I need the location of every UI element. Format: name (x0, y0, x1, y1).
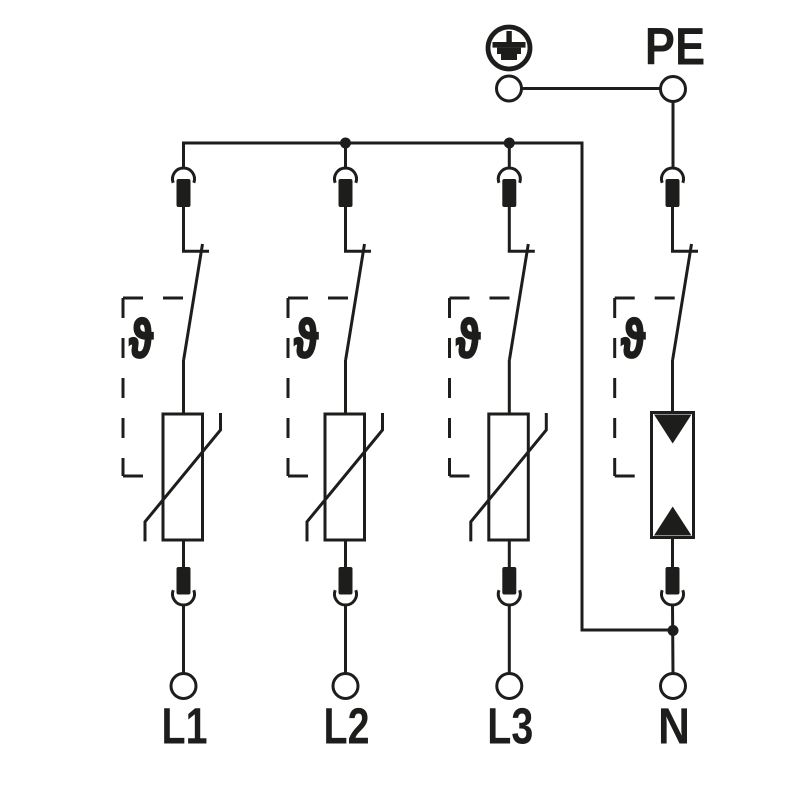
disconnect switch L2 (344, 244, 371, 360)
wire L1 varistor-fuse (182, 540, 185, 567)
wire L3 fuse-terminal (508, 605, 511, 674)
wire L3 varistor-fuse (508, 540, 511, 567)
thermal fuse top L2 (335, 168, 357, 207)
wire stub L2 (344, 143, 347, 168)
disconnect switch N (671, 244, 698, 360)
wire L1 fuse-terminal (182, 605, 185, 674)
terminal L2 (333, 674, 358, 699)
svg-text:ϑ: ϑ (294, 309, 318, 369)
svg-text:ϑ: ϑ (621, 309, 645, 369)
thermal box L1 (123, 298, 194, 476)
wire N gdt-fuse (671, 538, 674, 568)
svg-text:L2: L2 (324, 698, 370, 755)
svg-text:L1: L1 (162, 698, 208, 755)
wire earth-PE (522, 87, 661, 90)
wire L2 varistor-fuse (344, 540, 347, 567)
svg-text:L3: L3 (487, 698, 533, 755)
node bus-L3 (504, 138, 515, 149)
wire N fuse-switch (671, 207, 674, 251)
thermal fuse bottom L2 (335, 567, 357, 605)
gas discharge tube N (652, 413, 694, 538)
svg-text:PE: PE (645, 18, 706, 77)
svg-text:ϑ: ϑ (129, 309, 153, 369)
wire PE drop (672, 102, 675, 169)
wire bus (184, 143, 674, 630)
earth symbol (488, 27, 530, 69)
disconnect switch L1 (182, 244, 209, 360)
thermal box N (615, 298, 683, 476)
thermal fuse bottom N (662, 567, 684, 605)
wire L2 switch-varistor (344, 360, 347, 415)
wire stub L3 (508, 143, 511, 168)
wire L1 switch-varistor (182, 360, 185, 415)
terminal L1 (171, 674, 196, 699)
wire L2 fuse-terminal (344, 605, 347, 674)
wire L3 switch-varistor (508, 360, 511, 415)
thermal fuse bottom L1 (173, 567, 195, 605)
thermal fuse top N (662, 168, 684, 207)
svg-text:ϑ: ϑ (456, 309, 480, 369)
thermal fuse top L3 (498, 168, 520, 207)
svg-text:N: N (658, 698, 690, 755)
wire N fuse-terminal (671, 605, 675, 674)
varistor L3 (471, 413, 547, 541)
wire L3 fuse-switch (508, 207, 511, 251)
wire N switch-gdt (671, 360, 674, 414)
node bus-L2 (340, 138, 351, 149)
thermal fuse bottom L3 (498, 567, 520, 605)
terminal N (661, 674, 686, 699)
wire L2 fuse-switch (344, 207, 347, 251)
node N junction (668, 625, 679, 636)
terminal PE (661, 77, 686, 102)
terminal earth (497, 76, 522, 101)
thermal box L3 (450, 298, 521, 476)
thermal box L2 (288, 298, 356, 476)
varistor L1 (145, 413, 221, 541)
disconnect switch L3 (508, 244, 535, 360)
varistor L2 (307, 413, 383, 541)
terminal L3 (497, 674, 522, 699)
thermal fuse top L1 (173, 168, 195, 207)
wire L1 fuse-switch (182, 207, 185, 251)
